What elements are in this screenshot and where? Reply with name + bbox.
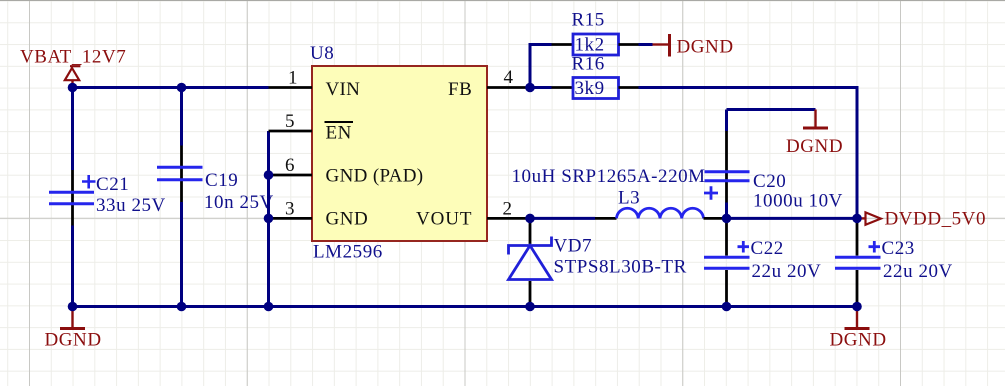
wire EN rail bbox=[267, 131, 270, 307]
junction top rail at C21 bbox=[68, 83, 78, 93]
svg-text:1000u 10V: 1000u 10V bbox=[753, 191, 843, 212]
power port DVDD_5V0 bbox=[857, 209, 986, 230]
svg-text:DGND: DGND bbox=[830, 330, 887, 351]
svg-text:DVDD_5V0: DVDD_5V0 bbox=[885, 209, 987, 230]
svg-text:VOUT: VOUT bbox=[416, 209, 472, 230]
svg-text:22u 20V: 22u 20V bbox=[883, 261, 953, 282]
svg-text:4: 4 bbox=[504, 67, 514, 88]
svg-text:VD7: VD7 bbox=[554, 236, 593, 257]
svg-text:LM2596: LM2596 bbox=[313, 242, 383, 263]
wire VOUT to L3 bbox=[530, 217, 595, 220]
wire FB riser to R15 bbox=[530, 45, 552, 88]
svg-text:C22: C22 bbox=[751, 238, 784, 259]
junction bottom rail at C22 bbox=[722, 302, 732, 312]
diode VD7 STPS8L30B-TR bbox=[509, 218, 687, 306]
junction C20 C22 node bbox=[722, 214, 732, 224]
pin 6 GND (PAD) bbox=[269, 155, 424, 187]
svg-text:C21: C21 bbox=[96, 174, 129, 195]
svg-text:VIN: VIN bbox=[326, 79, 361, 100]
pin 1 VIN bbox=[269, 68, 361, 101]
svg-text:C20: C20 bbox=[753, 171, 786, 192]
junction FB node bbox=[525, 83, 535, 93]
junction bottom rail at C23 bbox=[852, 302, 862, 312]
resistor R15 bbox=[552, 10, 639, 56]
svg-text:STPS8L30B-TR: STPS8L30B-TR bbox=[554, 257, 687, 278]
wire bottom rail bbox=[73, 305, 858, 308]
wire C19 branch upper bbox=[180, 88, 183, 146]
capacitor C23 bbox=[835, 218, 953, 306]
inductor L3 bbox=[512, 166, 727, 218]
resistor R16 bbox=[552, 54, 639, 100]
svg-text:33u 25V: 33u 25V bbox=[96, 195, 166, 216]
svg-text:L3: L3 bbox=[618, 188, 640, 209]
svg-text:6: 6 bbox=[285, 155, 295, 176]
capacitor C19 bbox=[157, 146, 274, 214]
svg-text:DGND: DGND bbox=[45, 330, 102, 351]
junction DVDD node bbox=[852, 214, 862, 224]
svg-text:GND (PAD): GND (PAD) bbox=[326, 166, 424, 187]
svg-text:22u 20V: 22u 20V bbox=[752, 261, 822, 282]
svg-text:R16: R16 bbox=[572, 54, 605, 75]
wire top rail bbox=[73, 86, 269, 89]
junction top rail at C19 bbox=[177, 83, 187, 93]
svg-text:10n 25V: 10n 25V bbox=[204, 192, 274, 213]
svg-text:3: 3 bbox=[285, 199, 295, 220]
capacitor C22 bbox=[704, 218, 821, 306]
pin 3 GND bbox=[269, 199, 369, 230]
svg-text:5: 5 bbox=[285, 111, 295, 132]
svg-text:DGND: DGND bbox=[677, 37, 734, 58]
svg-text:FB: FB bbox=[448, 79, 472, 100]
junction bottom rail at EN rail bbox=[264, 302, 274, 312]
pin 2 VOUT bbox=[416, 199, 530, 230]
svg-text:VBAT_12V7: VBAT_12V7 bbox=[20, 47, 126, 68]
capacitor C20 bbox=[704, 110, 843, 219]
svg-text:EN: EN bbox=[326, 123, 352, 144]
svg-text:C23: C23 bbox=[882, 238, 915, 259]
capacitor C21 bbox=[49, 170, 166, 226]
svg-text:10uH SRP1265A-220M: 10uH SRP1265A-220M bbox=[512, 166, 706, 187]
power port DGND bottom right bbox=[830, 307, 887, 351]
power port VBAT_12V7 bbox=[20, 47, 126, 88]
wire FB to R16 bbox=[530, 86, 552, 89]
svg-text:2: 2 bbox=[503, 199, 513, 220]
junction bottom rail at VD7 bbox=[525, 302, 535, 312]
wire C19 branch lower bbox=[180, 202, 183, 307]
junction VOUT node bbox=[525, 214, 535, 224]
wire R16 to output node bbox=[639, 88, 858, 219]
svg-text:GND: GND bbox=[326, 209, 369, 230]
wire R15 to DGND bbox=[639, 43, 653, 46]
svg-text:3k9: 3k9 bbox=[575, 78, 605, 99]
pin 4 FB bbox=[448, 67, 530, 100]
power port DGND bottom left bbox=[45, 307, 102, 351]
junction bottom rail at C19 bbox=[177, 302, 187, 312]
svg-text:DGND: DGND bbox=[786, 136, 843, 157]
svg-text:1: 1 bbox=[288, 68, 298, 89]
junction bottom rail at C21 bbox=[68, 302, 78, 312]
power port DGND middle bbox=[786, 110, 843, 158]
junction EN rail pin6 bbox=[264, 170, 274, 180]
junction EN rail pin3 bbox=[264, 214, 274, 224]
pin 5 EN bbox=[269, 111, 354, 144]
svg-text:R15: R15 bbox=[572, 10, 605, 31]
op-amp U8 body LM2596 bbox=[310, 43, 487, 263]
wire C21 branch lower bbox=[71, 226, 74, 307]
wire C20 top to DGND bbox=[727, 108, 816, 111]
power port DGND top bbox=[653, 34, 734, 58]
wire L3 to output node bbox=[727, 217, 858, 220]
svg-text:1k2: 1k2 bbox=[575, 35, 605, 56]
svg-text:U8: U8 bbox=[310, 43, 334, 64]
svg-text:C19: C19 bbox=[205, 170, 238, 191]
wire C21 branch upper bbox=[71, 88, 74, 171]
